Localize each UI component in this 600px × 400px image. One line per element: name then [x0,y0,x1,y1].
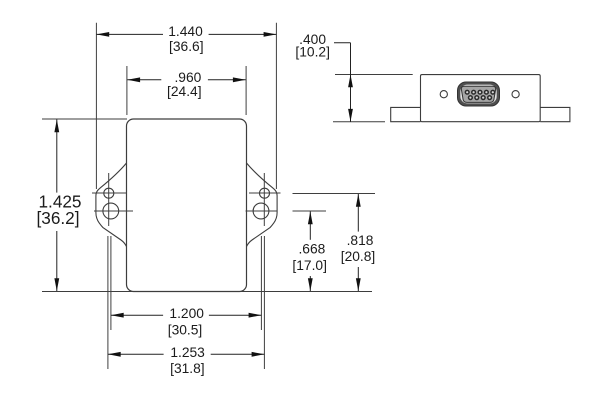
left large mounting hole [103,203,119,219]
dimension .400 leader [334,42,351,44]
front view body rounded rectangle [127,119,247,292]
dimension 1.200 line [111,314,163,316]
vertical centerline through right holes [263,173,265,226]
crosshair through right large hole [246,210,278,212]
svg-text:1.253: 1.253 [170,345,205,360]
dimension 1.425 line (left vertical) [56,120,58,193]
DB9 pins top row [465,90,496,95]
dimension .960 line [127,79,161,81]
svg-text:.668: .668 [298,241,325,256]
extension line from right large hole down to 1.200 [260,236,262,330]
DB9 pins bottom row [468,95,492,100]
dimension 1.253 line [108,353,164,355]
svg-text:[10.2]: [10.2] [295,45,330,60]
side view right flange [540,107,570,121]
left mounting ear outline [96,163,127,247]
side view: bottom extension line [333,121,385,123]
crosshair through right small hole [249,192,281,194]
dimension 1.440 line [96,33,163,35]
left small mounting hole [104,188,114,198]
extension line for .818 at small hole height [293,193,376,195]
left jack screw hole [440,91,447,98]
extension line from right small hole down to 1.253 [263,236,265,369]
svg-text:[24.4]: [24.4] [167,84,202,99]
extension lines for .960 body width [126,66,128,115]
svg-text:[20.8]: [20.8] [341,249,376,264]
svg-text:[36.2]: [36.2] [36,208,79,228]
extension line from left large hole down to 1.200 [110,236,112,330]
right mounting ear outline [247,163,278,247]
svg-text:.818: .818 [347,233,374,248]
front view: bottom baseline [42,291,372,293]
extension line for .668 at large hole height [293,210,327,212]
side view: top extension line [335,74,413,76]
svg-text:.960: .960 [174,70,201,85]
crosshair through left large hole [94,210,133,212]
right jack screw hole [512,91,519,98]
right large mounting hole [253,203,269,219]
svg-text:1.200: 1.200 [169,306,204,321]
DB9 pin holes (light centers) [466,91,494,99]
svg-text:[17.0]: [17.0] [292,258,327,273]
crosshair through left small hole [92,192,127,194]
front view: top extension line at body top [42,118,127,120]
extension lines for 1.440 overall width [95,23,97,189]
DB9 connector inner light ring [460,85,496,104]
DB9 connector metal D-shell [461,86,495,102]
svg-text:1.440: 1.440 [168,24,203,39]
svg-text:[36.6]: [36.6] [169,39,204,54]
side view left flange [391,107,421,121]
right small mounting hole [260,188,270,198]
dimension .668 line (vertical) [309,212,311,240]
svg-text:[31.8]: [31.8] [170,361,205,376]
DB9 connector outer shell [458,82,500,106]
side view body rectangle [421,75,541,122]
extension line from left small hole down to 1.253 [107,236,109,369]
dimension .818 line (vertical) [357,194,359,232]
svg-text:[30.5]: [30.5] [168,322,203,337]
vertical centerline through left holes [108,173,110,226]
